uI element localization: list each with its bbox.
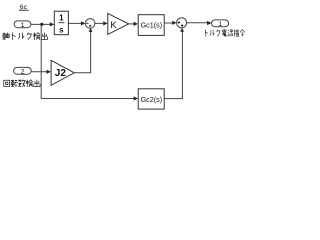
arrowhead into J2 — [47, 70, 51, 74]
svg-text:1: 1 — [59, 14, 64, 23]
integrator block 1/s — [54, 11, 68, 35]
wire J2 to sum1 (right then up) — [74, 31, 90, 73]
svg-text:s: s — [59, 25, 64, 34]
block Gc1(s) — [138, 15, 164, 36]
svg-text:J2: J2 — [55, 68, 67, 79]
junction node — [40, 23, 43, 26]
block Gc2(s) — [138, 89, 164, 109]
label トルク電流指令 — [205, 29, 244, 36]
gain block J2 (triangle) — [51, 60, 74, 85]
label 軸トルク検出 — [3, 33, 48, 40]
wire port1 to integrator — [31, 23, 51, 25]
label 6c (reference numeral, underlined) — [19, 4, 29, 11]
arrowhead into sum2 — [172, 21, 176, 25]
svg-text:2: 2 — [21, 69, 25, 76]
input port 2 (oval) — [14, 67, 32, 75]
wire port2 to gain J2 — [31, 71, 47, 73]
svg-text:K: K — [110, 20, 117, 31]
svg-text:Gc1(s): Gc1(s) — [141, 21, 163, 30]
svg-text:1: 1 — [21, 22, 25, 29]
arrowhead into output port — [207, 21, 211, 25]
wire junction down — [40, 24, 42, 98]
svg-text:Gc2(s): Gc2(s) — [141, 95, 163, 104]
wire Gc1 to sum2 — [164, 22, 173, 24]
arrowhead up into sum2 — [180, 28, 184, 32]
sum junction S1 — [85, 19, 95, 29]
wire sum1 to gain K — [95, 22, 104, 24]
arrowhead into K — [103, 21, 107, 25]
wire bottom to Gc2 — [41, 98, 134, 100]
arrowhead up into sum1 — [89, 28, 93, 32]
wire K to Gc1 — [129, 23, 135, 25]
svg-text:1: 1 — [218, 21, 222, 28]
wire sum2 to output port — [187, 22, 209, 24]
arrowhead into integrator — [50, 22, 54, 26]
gain block K (triangle) — [108, 13, 129, 34]
arrowhead into sum1 — [81, 21, 85, 25]
arrowhead into Gc1 — [134, 22, 138, 26]
arrowhead into Gc2 — [134, 96, 138, 100]
wire Gc2 to sum2 (right then up) — [164, 31, 182, 98]
wire integrator to sum1 — [68, 22, 81, 24]
output port 1 (oval) — [212, 20, 229, 28]
input port 1 (oval) — [14, 21, 31, 29]
label 回転数検出 — [4, 80, 40, 87]
sum junction S2 — [177, 18, 187, 28]
